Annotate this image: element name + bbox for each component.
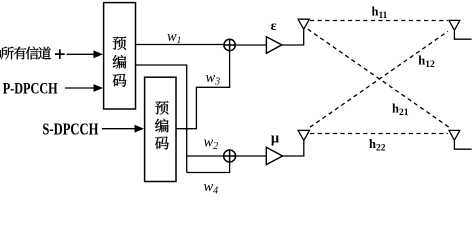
svg-text:w1: w1 xyxy=(167,29,181,46)
arrowhead into precoder1 (bottom) xyxy=(94,84,104,92)
amplifier E triangle xyxy=(266,37,281,54)
wire arrow line 所有信道 xyxy=(67,53,96,55)
svg-text:P-DPCCH: P-DPCCH xyxy=(3,80,58,97)
precoder1 label char 码 xyxy=(113,74,127,87)
arrowhead into precoder2 xyxy=(135,125,145,133)
svg-text:w3: w3 xyxy=(206,70,221,88)
wire w1 from precoder1 to adder S1 xyxy=(136,44,224,46)
label plus sign after 所有信道 xyxy=(55,49,65,59)
arrowhead into precoder1 (top) xyxy=(94,50,104,58)
channel h11 dashed line xyxy=(310,20,448,22)
svg-text:μ: μ xyxy=(271,130,280,146)
svg-text:h21: h21 xyxy=(392,102,409,119)
precoder block 1 xyxy=(104,3,136,109)
wire w2/w4 trunk from precoder1 lower output xyxy=(136,65,187,173)
svg-text:h22: h22 xyxy=(369,137,386,154)
wire arrow line P-DPCCH xyxy=(65,87,95,89)
wire amp M to TX antenna 2 xyxy=(283,140,304,156)
wire w4 segment into adder S2 bottom xyxy=(187,162,230,173)
svg-text:w2: w2 xyxy=(204,134,219,152)
amplifier M triangle xyxy=(266,147,282,164)
svg-text:h11: h11 xyxy=(372,4,388,21)
adder S2 (circle with plus) xyxy=(224,150,236,162)
label 所有信道 char 道 xyxy=(38,47,51,60)
precoder2 label char 预 xyxy=(155,101,168,114)
adder S1 (circle with plus) xyxy=(224,39,235,50)
wire amp E to TX antenna 1 xyxy=(282,29,304,45)
wire arrow line S-DPCCH xyxy=(102,128,136,130)
label 所有信道 char 有 xyxy=(14,47,27,60)
wire adder S1 to amp E xyxy=(235,44,266,46)
svg-text:S-DPCCH: S-DPCCH xyxy=(42,119,98,138)
channel h12 dashed line (up diagonal) xyxy=(310,31,448,127)
svg-text:ε: ε xyxy=(271,19,277,34)
precoder1 label char 预 xyxy=(113,36,126,49)
RX antenna 2 xyxy=(449,130,472,149)
precoder1 label char 编 xyxy=(113,55,127,69)
wire adder S2 to amp M xyxy=(236,155,267,157)
wire w3 from precoder2 to adder S1 bottom xyxy=(176,51,230,129)
precoder2 label char 码 xyxy=(155,136,169,149)
channel h22 dashed line xyxy=(310,133,448,135)
TX antenna 2 xyxy=(298,130,309,140)
wire w2 branch to adder S2 xyxy=(187,155,224,157)
precoder block 2 xyxy=(145,77,176,181)
channel h21 dashed line (down diagonal) xyxy=(308,29,450,128)
TX antenna 1 xyxy=(298,19,309,29)
RX antenna 1 xyxy=(449,20,472,39)
label 所有信道 char 信 xyxy=(26,47,39,60)
precoder2 label char 编 xyxy=(155,119,169,133)
label 所有信道 (cut glyph sliver at edge) xyxy=(0,50,1,58)
label 所有信道 char 所 xyxy=(1,47,14,60)
svg-text:w4: w4 xyxy=(204,179,219,197)
svg-text:h12: h12 xyxy=(418,54,435,71)
